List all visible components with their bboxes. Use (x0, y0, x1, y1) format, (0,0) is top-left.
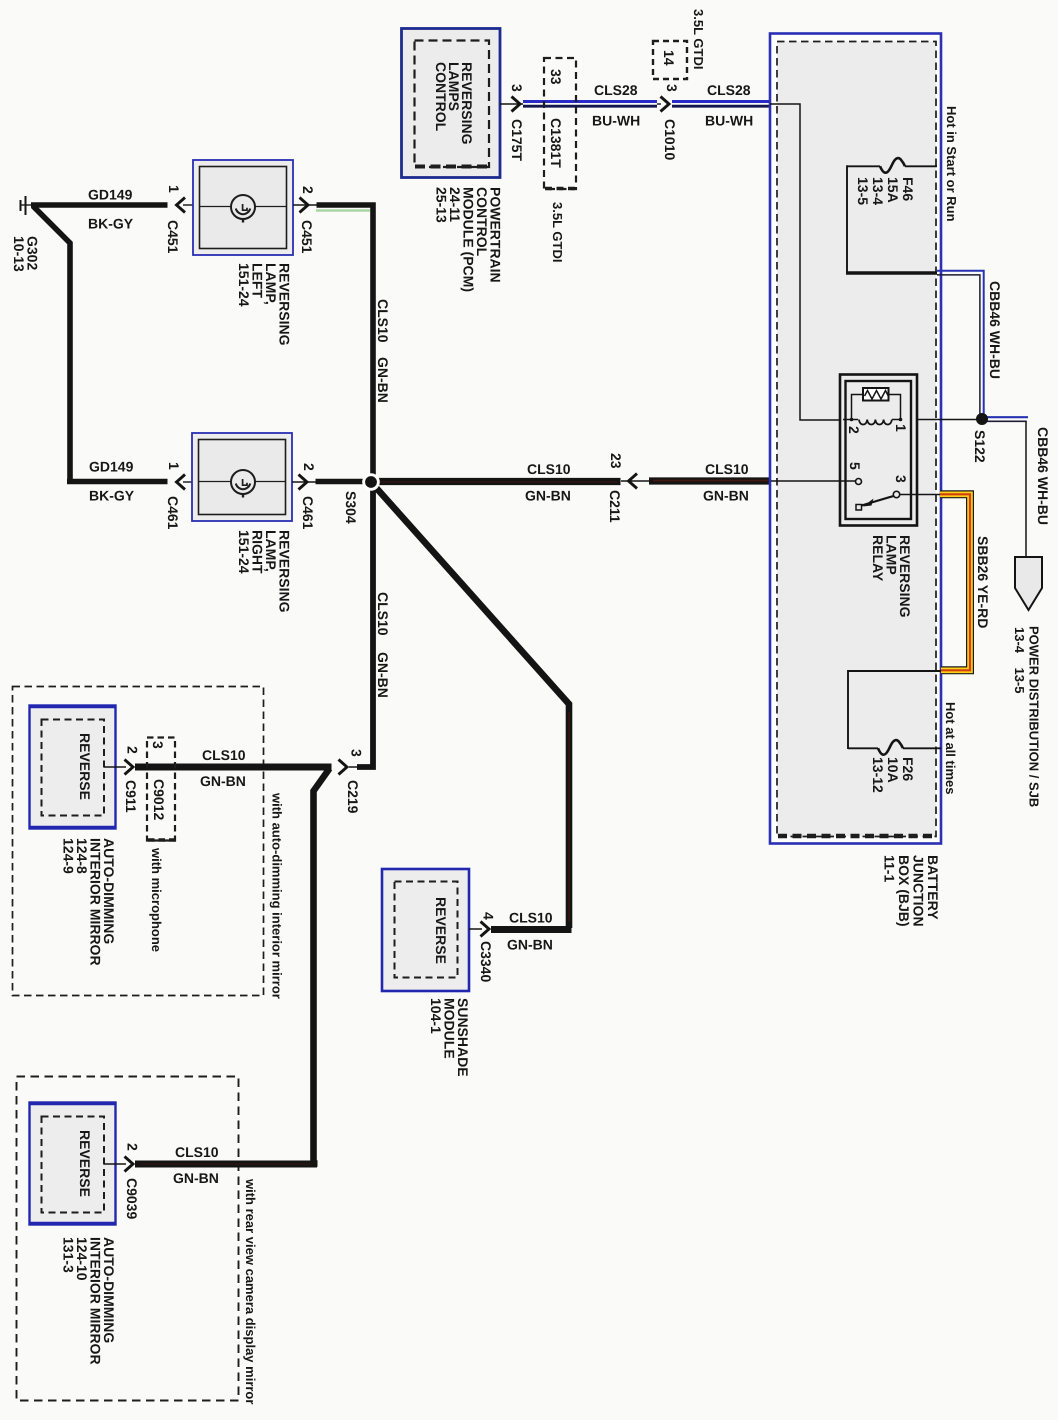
outer dashed box (13, 687, 264, 996)
svg-text:BK-GY: BK-GY (88, 216, 134, 232)
svg-text:CLS10: CLS10 (175, 1144, 219, 1160)
ground G302 (21, 196, 35, 215)
svg-text:Hot in Start or Run: Hot in Start or Run (944, 106, 959, 222)
powertrain control module box (402, 29, 501, 178)
relay REVERSING LAMP RELAY (840, 375, 917, 526)
wire sunshade pin4 (469, 928, 482, 930)
svg-text:C461: C461 (300, 496, 316, 530)
svg-text:3.5L GTDI: 3.5L GTDI (691, 9, 706, 69)
wire S304 down to C219 (357, 482, 373, 767)
svg-text:C211: C211 (607, 490, 623, 523)
svg-text:CLS10: CLS10 (375, 592, 391, 636)
svg-text:2: 2 (300, 186, 316, 194)
wire lamp left pin2 to corner then down to S304 (317, 205, 374, 482)
svg-text:25-13: 25-13 (434, 187, 450, 223)
svg-text:GD149: GD149 (89, 459, 134, 475)
svg-text:CLS10: CLS10 (375, 299, 391, 343)
svg-text:11-1: 11-1 (882, 855, 898, 882)
wire PCM pin3 (500, 103, 523, 105)
svg-text:GN-BN: GN-BN (173, 1170, 219, 1186)
svg-text:GD149: GD149 (88, 187, 133, 203)
svg-text:10A: 10A (885, 757, 901, 783)
connector arrow C911 (apex right) (123, 746, 141, 813)
svg-text:3: 3 (349, 749, 365, 757)
svg-text:RELAY: RELAY (870, 535, 886, 582)
wire branch down to mirror2 (314, 769, 330, 1164)
svg-text:CLS28: CLS28 (707, 82, 751, 98)
connector arrow C211 (apex left, pin 23) (607, 453, 650, 523)
wire mirror1 pin2 (104, 766, 126, 768)
svg-text:with rear view camera display: with rear view camera display mirror (243, 1178, 258, 1404)
connector arrow C461 pin1 (apex left) (165, 462, 192, 530)
svg-text:C451: C451 (165, 220, 181, 254)
connector arrow C1010 (apex right) (657, 84, 680, 160)
svg-text:1: 1 (166, 185, 182, 193)
bulb symbol (231, 195, 255, 219)
bulb symbol (231, 470, 255, 494)
svg-text:1: 1 (893, 424, 909, 432)
label REVERSING LAMP RELAY (870, 535, 913, 618)
svg-text:CLS10: CLS10 (527, 461, 571, 477)
svg-text:5: 5 (847, 462, 863, 470)
svg-text:S122: S122 (972, 430, 988, 463)
wire to lamp right pin1 (67, 479, 168, 485)
label POWER DISTRIBUTION / SJB 13-4 13-5 (1012, 626, 1042, 807)
svg-text:CONTROL: CONTROL (433, 62, 449, 132)
svg-text:CLS10: CLS10 (509, 910, 553, 926)
svg-text:3: 3 (509, 84, 525, 92)
wire GD149 BK-GY ground to lamp left pin1 (31, 202, 168, 208)
svg-text:3: 3 (893, 475, 909, 483)
splice S122 (976, 413, 988, 425)
resistor zigzag (865, 391, 889, 400)
svg-text:C175T: C175T (509, 119, 525, 161)
svg-text:BU-WH: BU-WH (705, 113, 753, 129)
label F46 15A 13-4 13-5 (855, 177, 916, 205)
svg-text:124-9: 124-9 (61, 838, 77, 874)
blue wire CBB46 WH-BU from F46 to S122 (937, 271, 984, 419)
svg-text:POWER DISTRIBUTION / SJB: POWER DISTRIBUTION / SJB (1027, 626, 1042, 807)
BJB thick dashes bottom (778, 834, 936, 839)
svg-text:3: 3 (664, 84, 680, 92)
orange wire SBB26 YE-RD (940, 494, 970, 670)
svg-text:C3340: C3340 (478, 941, 494, 982)
svg-text:13-5: 13-5 (855, 177, 871, 205)
svg-text:C219: C219 (345, 780, 361, 814)
blue wire S122 to right (982, 417, 1028, 421)
green tint under wire (316, 209, 370, 211)
svg-text:REVERSE: REVERSE (433, 897, 449, 964)
wire mirror2 pin2 (104, 1163, 126, 1165)
svg-text:BU-WH: BU-WH (592, 113, 640, 129)
connector arrow C219 (apex right) (339, 749, 365, 814)
svg-text:104-1: 104-1 (428, 998, 444, 1034)
svg-text:with microphone: with microphone (149, 847, 164, 952)
connector C9012 dashed box (147, 738, 176, 841)
wire ground branch diagonal + vertical down (33, 206, 70, 482)
svg-text:33: 33 (548, 69, 564, 85)
label AUTO-DIMMING INTERIOR MIRROR 124-8 124-9 (61, 838, 118, 966)
wire C3340 to diagonal (491, 926, 572, 933)
label POWERTRAIN CONTROL MODULE (PCM) 24-11 25-13 (434, 187, 504, 292)
svg-text:C9012: C9012 (151, 779, 167, 820)
power distribution off-page arrow (1015, 557, 1042, 610)
svg-text:C1381T: C1381T (548, 118, 564, 168)
fuse F46 15A (846, 158, 937, 274)
svg-text:13-4: 13-4 (870, 177, 886, 205)
connector arrow C451 pin2 (apex right) (293, 186, 318, 254)
relay coil winding (843, 419, 858, 421)
svg-text:REVERSE: REVERSE (77, 733, 93, 800)
svg-text:C1010: C1010 (662, 119, 678, 160)
svg-text:151-24: 151-24 (236, 530, 252, 574)
wire S304 diagonal to sunshade (371, 482, 569, 928)
svg-text:131-3: 131-3 (61, 1237, 77, 1273)
svg-text:13-4 13-5: 13-4 13-5 (1012, 627, 1027, 694)
svg-text:2: 2 (301, 463, 317, 471)
connector arrow C451 pin1 (apex left) (165, 185, 193, 254)
svg-text:REVERSE: REVERSE (77, 1130, 93, 1197)
wire CLS28 inside BJB to relay pin2 (770, 104, 849, 420)
svg-text:Hot at all times: Hot at all times (943, 702, 958, 794)
dashed box 14 (3.5L GTDI) (653, 41, 687, 79)
svg-text:15A: 15A (885, 177, 901, 203)
svg-text:C911: C911 (123, 780, 139, 813)
wire C911 to C219 (135, 764, 332, 771)
wire S304 to C211 (371, 478, 621, 485)
svg-text:C461: C461 (165, 496, 181, 530)
svg-text:GN-BN: GN-BN (703, 488, 749, 504)
connector arrow C175T (apex right) (509, 84, 525, 161)
svg-text:4: 4 (481, 912, 497, 920)
relay coil suppression resistor (852, 395, 864, 420)
svg-text:CLS10: CLS10 (705, 461, 749, 477)
svg-text:CLS28: CLS28 (594, 82, 638, 98)
svg-text:F26: F26 (900, 757, 916, 781)
connector arrow C9039 (apex right) (124, 1143, 141, 1219)
svg-text:SBB26 YE-RD: SBB26 YE-RD (975, 536, 991, 628)
reversing lamp left box (193, 160, 293, 255)
svg-text:F46: F46 (900, 177, 916, 201)
label BATTERY JUNCTION BOX (BJB) 11-1 (882, 855, 942, 927)
svg-text:3.5L GTDI: 3.5L GTDI (550, 202, 565, 262)
svg-text:CBB46 WH-BU: CBB46 WH-BU (987, 281, 1003, 379)
wire lamp right pin2 to S304 (316, 479, 372, 485)
svg-text:C451: C451 (299, 220, 315, 254)
svg-text:with auto-dimming interior mir: with auto-dimming interior mirror (270, 792, 285, 999)
svg-text:GN-BN: GN-BN (507, 937, 553, 953)
svg-text:13-12: 13-12 (870, 757, 886, 793)
connector C1381T dashed box with 33 (544, 58, 576, 189)
svg-text:S304: S304 (343, 491, 359, 524)
connector arrow C3340 (apex right) (478, 912, 497, 982)
svg-text:CLS10: CLS10 (202, 747, 246, 763)
svg-text:GN-BN: GN-BN (200, 773, 246, 789)
wire relay pin3 out (900, 494, 940, 496)
svg-text:GN-BN: GN-BN (525, 488, 571, 504)
svg-text:2: 2 (125, 1143, 141, 1151)
label REVERSING LAMP, RIGHT 151-24 (236, 530, 293, 613)
outer dashed box (17, 1077, 239, 1401)
svg-text:1: 1 (166, 462, 182, 470)
label REVERSING LAMP, LEFT 151-24 (236, 263, 293, 346)
blue wire CLS28 BU-WH segment1 (523, 102, 657, 107)
label G302 10-13 (11, 236, 41, 272)
wire C211 to BJB (649, 477, 771, 484)
svg-text:C9039: C9039 (124, 1178, 140, 1219)
label AUTO-DIMMING INTERIOR MIRROR 124-10 131-3 (61, 1237, 118, 1365)
BJB inner dashed box (777, 42, 936, 837)
wire to power distribution (1025, 422, 1027, 557)
label SUNSHADE MODULE 104-1 (428, 998, 471, 1077)
svg-text:10-13: 10-13 (11, 236, 27, 272)
wire S122 to relay pin1 (901, 419, 979, 421)
reversing lamp right box (192, 433, 292, 521)
fuse F26 10A (848, 670, 941, 755)
relay switch contacts pins 5 and 3 (856, 479, 862, 485)
label F26 10A 13-12 (870, 757, 916, 793)
wire C9039 to branch (135, 1161, 317, 1168)
REVERSE box (29, 706, 116, 829)
splice S304 (362, 473, 380, 491)
svg-text:GN-BN: GN-BN (375, 357, 391, 403)
label REVERSING LAMPS CONTROL (433, 62, 475, 145)
REVERSE box (29, 1103, 116, 1225)
svg-text:2: 2 (846, 426, 862, 434)
svg-text:23: 23 (608, 453, 624, 469)
svg-text:14: 14 (661, 50, 677, 66)
svg-text:2: 2 (125, 746, 141, 754)
svg-text:3: 3 (150, 741, 166, 749)
BJB outer solid blue box (770, 34, 941, 844)
blue wire CLS28 BU-WH segment2 (672, 102, 771, 107)
svg-text:CBB46 WH-BU: CBB46 WH-BU (1035, 427, 1051, 525)
connector arrow C461 pin2 (apex right) (292, 463, 317, 530)
svg-text:BK-GY: BK-GY (89, 488, 135, 504)
svg-text:151-24: 151-24 (236, 263, 252, 307)
svg-text:GN-BN: GN-BN (375, 652, 391, 698)
wire into relay pin5 (771, 480, 855, 482)
